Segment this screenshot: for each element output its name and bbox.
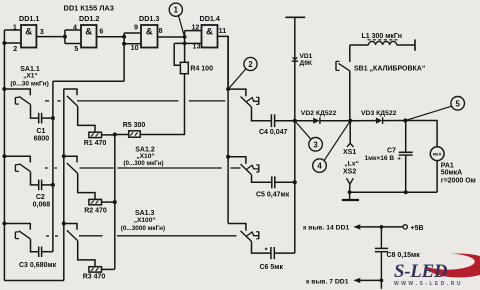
resistor R4 [180, 62, 188, 73]
wire XS1 stem [349, 121, 351, 144]
wire XS1 node to VD3 [350, 120, 376, 122]
svg-text:R3 470: R3 470 [83, 273, 106, 280]
switch SA1.3 contact 3 [228, 224, 246, 231]
svg-text:5: 5 [74, 45, 78, 53]
svg-text:„Х1“: „Х1“ [23, 72, 38, 79]
wire C7 stem upper [405, 121, 407, 153]
logic gate DD1.4 [202, 25, 218, 48]
svg-text:6: 6 [99, 27, 103, 35]
wire VD2 to XS1 node [320, 120, 350, 122]
wire pin5 DD1.2 [65, 43, 81, 45]
svg-text:R5 300: R5 300 [123, 122, 146, 129]
switch SA1.1 contact 3 [4, 224, 30, 230]
capacitor C3 [38, 246, 40, 257]
connector XS1 [347, 143, 354, 147]
wire GND row [360, 279, 381, 281]
svg-text:6800: 6800 [34, 136, 50, 143]
svg-text:3: 3 [40, 28, 44, 36]
svg-text:5: 5 [456, 99, 461, 108]
logo S-LED [426, 254, 480, 278]
wire pin10 DD1.3 [124, 43, 141, 45]
wire VD3 to C7 node [383, 120, 406, 122]
meter PA1 [430, 147, 444, 161]
capacitor C7 [399, 151, 413, 153]
node terminal +5V [403, 225, 407, 229]
svg-text:8: 8 [159, 27, 163, 35]
svg-text:XS1: XS1 [343, 149, 356, 156]
svg-text:DD1.4: DD1.4 [200, 14, 220, 23]
wire SB1 lower [349, 71, 351, 121]
svg-text:C2: C2 [36, 194, 45, 201]
resistor R5 [129, 131, 141, 137]
wire R4 bottom to R5 node [140, 74, 184, 135]
wire pin9 DD1.3 [124, 32, 141, 34]
wire pin12 DD1.4 [185, 30, 202, 32]
node junction pin8/pin12/pin13 [184, 31, 186, 63]
wire C7 node to PA1 [405, 121, 437, 148]
svg-text:&: & [85, 26, 92, 37]
svg-text:4: 4 [73, 23, 77, 31]
svg-text:R1 470: R1 470 [84, 140, 107, 147]
svg-text:2: 2 [248, 60, 253, 69]
capacitor C2 [38, 180, 40, 191]
svg-text:50мкА: 50мкА [441, 170, 463, 177]
switch SA1.1 contact 1 [4, 89, 30, 95]
svg-text:C8 0,15мк: C8 0,15мк [387, 252, 421, 259]
switch SA1.3 contact 2 [228, 157, 246, 164]
node callout 5 [451, 97, 465, 111]
node arrow to DD1 pin14 [353, 224, 360, 229]
svg-text:г=2000 Ом: г=2000 Ом [441, 177, 476, 184]
svg-text:(0...300 мкГн): (0...300 мкГн) [123, 160, 163, 167]
inductor L1 [350, 44, 369, 46]
svg-text:11: 11 [219, 27, 227, 35]
svg-text:W W W . S - L E D . R U: W W W . S - L E D . R U [394, 281, 461, 287]
wire SB1 upper [349, 45, 351, 62]
node junction ground rail [348, 190, 352, 194]
svg-text:PA1: PA1 [441, 162, 454, 169]
switch SA1.2 contact 2 [64, 156, 77, 162]
svg-text:(0...30 мкГн): (0...30 мкГн) [10, 80, 48, 87]
svg-text:S-LED: S-LED [394, 261, 448, 282]
capacitor C4 [270, 114, 272, 127]
svg-text:3: 3 [313, 140, 318, 149]
svg-text:„Lх“: „Lх“ [344, 161, 359, 168]
svg-text:1: 1 [174, 6, 179, 15]
switch SA1.1 contact 2 [4, 156, 30, 162]
capacitor C8 [380, 227, 382, 249]
wire DD1.2 output pin6 [97, 36, 125, 38]
svg-text:DD1.1: DD1.1 [19, 14, 39, 23]
svg-text:(0...3000 мкГн): (0...3000 мкГн) [121, 225, 165, 232]
resistor R1 [89, 132, 102, 137]
svg-text:VD2 КД522: VD2 КД522 [301, 110, 337, 117]
wire pin4 DD1.2 [65, 29, 81, 31]
wire meter bottom rail [350, 191, 438, 193]
resistor R2 [89, 199, 102, 204]
svg-text:XS2: XS2 [343, 168, 356, 175]
node terminal bar L1 right [414, 39, 416, 50]
node callout 3 [309, 138, 323, 152]
node callout 1 [169, 3, 182, 16]
svg-text:C6 5мк: C6 5мк [260, 264, 284, 271]
mechanical link row1 [45, 100, 49, 102]
node junction DD1.2 input tie [64, 30, 66, 44]
svg-text:Д9К: Д9К [300, 60, 313, 67]
wire R5 left [115, 134, 129, 136]
svg-text:R4 100: R4 100 [190, 66, 213, 73]
svg-text:DD1.2: DD1.2 [79, 14, 99, 23]
wire left rail DD1.1 inputs [3, 30, 5, 281]
svg-text:13: 13 [193, 43, 201, 51]
svg-text:к выв. 7 DD1: к выв. 7 DD1 [306, 278, 349, 285]
node vertical DD1.3 input tie [123, 33, 125, 81]
svg-text:&: & [25, 26, 32, 37]
logic gate DD1.1 [21, 25, 36, 48]
svg-text:C5 0,47мк: C5 0,47мк [256, 192, 290, 199]
svg-text:+5В: +5В [411, 225, 424, 232]
svg-text:12: 12 [191, 23, 199, 31]
svg-text:L1 300 мкГн: L1 300 мкГн [362, 33, 402, 40]
node junction C4/VD1/VD2 [293, 119, 297, 123]
svg-text:R2 470: R2 470 [84, 208, 107, 215]
wire pin1 DD1.1 [4, 29, 21, 31]
svg-text:10: 10 [131, 44, 139, 52]
capacitor C6 [270, 247, 272, 259]
svg-text:C7: C7 [387, 147, 396, 154]
wire DD1.1 output to DD1.2 inputs [36, 36, 65, 38]
wire cap bus to DD1.3 inputs [53, 80, 124, 82]
switch SB1 [335, 61, 337, 70]
svg-text:2: 2 [13, 45, 17, 53]
mechanical link row3 [46, 235, 49, 237]
svg-text:&: & [206, 26, 213, 37]
wire R-bus rail [114, 135, 116, 270]
svg-text:к выв. 14 DD1: к выв. 14 DD1 [303, 225, 349, 232]
wire bank2 rail [63, 89, 65, 281]
switch SA1.2 contact 1 [64, 89, 77, 95]
wire +5V row [360, 226, 403, 228]
svg-text:DD1 К155 ЛА3: DD1 К155 ЛА3 [64, 4, 114, 13]
wire DD1.3 output pin8 [158, 36, 185, 38]
switch SA1.2 contact 3 [64, 224, 77, 230]
svg-text:0,068: 0,068 [33, 202, 51, 209]
wire bottom rail [4, 280, 63, 282]
diode VD2 [313, 118, 319, 124]
logic gate DD1.3 [141, 25, 158, 48]
wire detector column [294, 121, 296, 253]
wire dog-leg to R4 left [174, 43, 180, 65]
node callout 4 [313, 159, 327, 173]
ground [349, 192, 351, 199]
mechanical link row2 [45, 167, 48, 169]
svg-text:VD3 КД522: VD3 КД522 [361, 110, 397, 117]
svg-text:*: * [265, 246, 268, 255]
wire VD1 column upper [294, 17, 296, 57]
resistor R3 [89, 267, 102, 272]
svg-text:SB1 „КАЛИБРОВКА“: SB1 „КАЛИБРОВКА“ [354, 65, 425, 72]
svg-text:„Х100“: „Х100“ [134, 217, 156, 224]
wire DD1.4 output pin11 [218, 36, 229, 89]
switch SA1.3 contact 1 [228, 89, 246, 96]
svg-text:1мк×16 В: 1мк×16 В [365, 155, 395, 162]
svg-text:+: + [397, 156, 401, 163]
wire to VD2 [295, 120, 313, 122]
svg-text:C1: C1 [36, 128, 45, 135]
diode VD1 [292, 57, 298, 61]
svg-text:DD1.3: DD1.3 [139, 14, 159, 23]
svg-text:C3 0,680мк: C3 0,680мк [19, 262, 57, 269]
svg-text:мкА: мкА [433, 152, 443, 157]
node callout 2 [244, 57, 257, 70]
diode VD3 [376, 118, 382, 124]
wire capacitor bus [52, 81, 54, 251]
capacitor C5 [271, 176, 273, 188]
svg-text:9: 9 [134, 23, 138, 31]
svg-text:4: 4 [317, 162, 322, 171]
capacitor C1 [38, 113, 40, 124]
svg-text:C4 0,047: C4 0,047 [259, 129, 288, 136]
svg-text:&: & [146, 26, 153, 37]
connector XS2 [347, 178, 354, 184]
wire pin13 DD1.4 [174, 42, 201, 44]
wire pin2 DD1.1 [4, 42, 21, 44]
node arrow to DD1 pin7 [353, 278, 360, 283]
logic gate DD1.2 [81, 25, 97, 48]
wire bank3 rail [227, 36, 229, 223]
node common bar top [285, 16, 305, 18]
